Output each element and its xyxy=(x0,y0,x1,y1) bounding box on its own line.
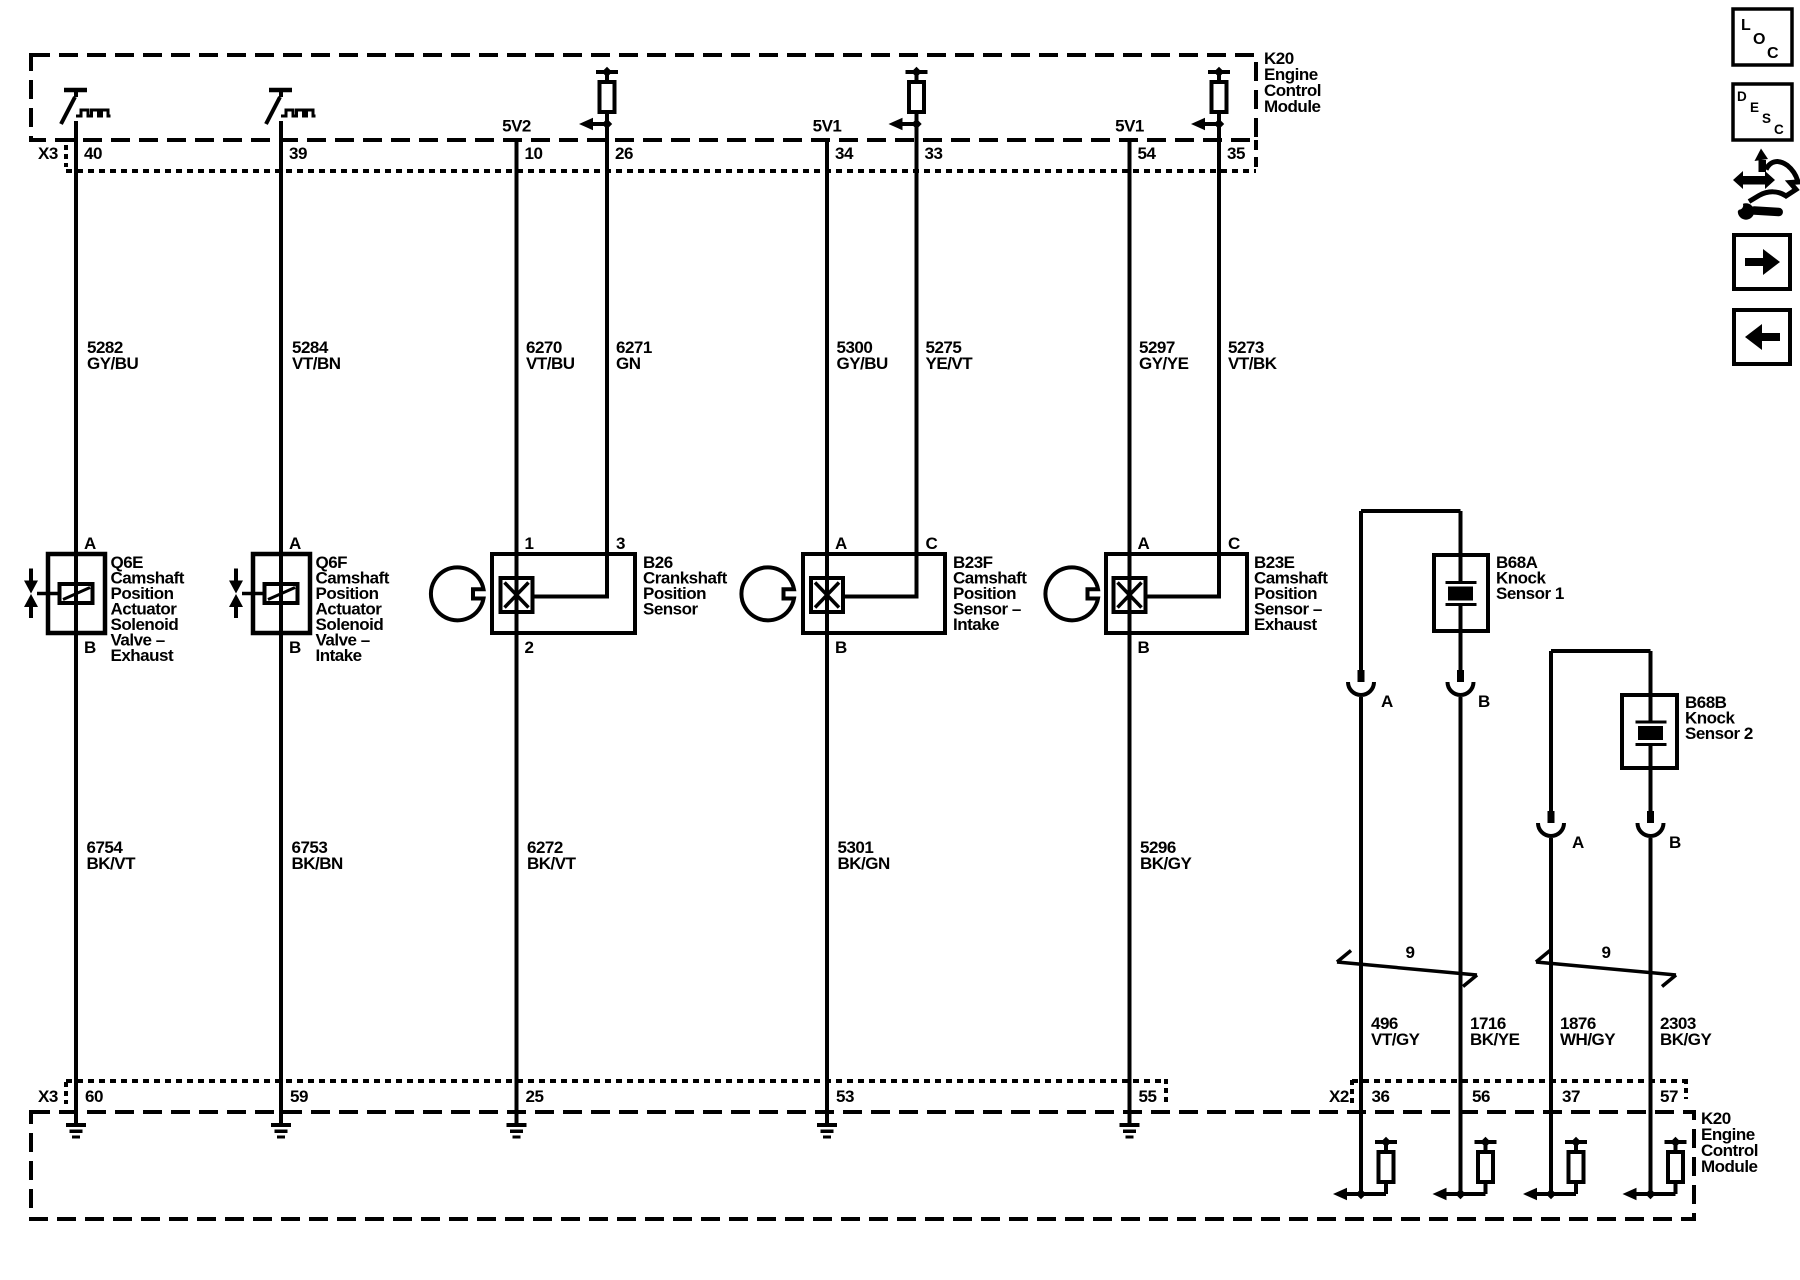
label B23E Camshaft... xyxy=(1254,553,1328,634)
reluctor wheel symbol (B23F) xyxy=(741,567,794,620)
ECM K20 module box (top) xyxy=(31,55,1256,140)
svg-text:33: 33 xyxy=(925,144,943,163)
wire 6754 BK/VT (Q6E B to pin 60) xyxy=(74,554,78,1123)
reluctor wheel symbol (B23E) xyxy=(1045,567,1098,620)
svg-text:X3: X3 xyxy=(38,1087,58,1106)
B68B piezo element xyxy=(1636,651,1667,768)
svg-text:B: B xyxy=(1669,833,1681,852)
svg-text:9: 9 xyxy=(1406,943,1415,962)
twisted pair marker (B68A wires) xyxy=(1337,951,1477,987)
junction dot (pin 57 node) xyxy=(1645,1189,1655,1199)
label wire 6753 BK/BN xyxy=(292,838,344,873)
svg-text:Sensor 1: Sensor 1 xyxy=(1496,584,1564,603)
svg-text:60: 60 xyxy=(85,1087,103,1106)
wire 5296 BK/GY (B23E B to pin 55) xyxy=(1128,554,1132,1123)
junction dot (pin 56 node) xyxy=(1455,1189,1465,1199)
svg-text:GY/BU: GY/BU xyxy=(837,354,889,373)
svg-text:VT/BN: VT/BN xyxy=(292,354,341,373)
svg-text:Module: Module xyxy=(1264,97,1321,116)
label wire 2303 BK/GY xyxy=(1660,1014,1713,1049)
svg-text:BK/YE: BK/YE xyxy=(1470,1030,1520,1049)
svg-text:X3: X3 xyxy=(38,144,58,163)
wire 6272 BK/VT (B26 2 to pin 25) xyxy=(515,554,519,1123)
ground (pin 53) xyxy=(817,1123,837,1139)
inline connector connector B (B68A) xyxy=(1448,670,1474,695)
icon LOC button xyxy=(1733,9,1792,65)
connector X3 strip dotted line (bottom) xyxy=(66,1079,1166,1083)
ground (pin 60) xyxy=(66,1123,86,1139)
svg-text:C: C xyxy=(1228,534,1240,553)
resistor (ECM bias, B23E signal) xyxy=(1208,67,1230,124)
svg-text:GY/BU: GY/BU xyxy=(87,354,139,373)
svg-text:C: C xyxy=(1767,45,1779,62)
icon back arrow button xyxy=(1734,310,1790,364)
wire 5282 GY/BU (pin 40 to Q6E A) xyxy=(74,121,78,554)
label wire 5301 BK/GN xyxy=(838,838,891,873)
svg-text:C: C xyxy=(1774,122,1784,137)
resistor and arrow (ECM input, pin 57) xyxy=(1623,1137,1687,1200)
valve link line (Q6F) xyxy=(242,592,266,596)
svg-text:GN: GN xyxy=(616,354,641,373)
svg-text:Exhaust: Exhaust xyxy=(1254,615,1317,634)
svg-text:5V1: 5V1 xyxy=(1115,117,1144,136)
svg-text:B: B xyxy=(835,638,847,657)
valve link line (Q6E) xyxy=(37,592,61,596)
label Q6E Camshaft... xyxy=(111,553,185,665)
sensor element X symbol (B23F) xyxy=(811,578,843,612)
svg-text:Sensor: Sensor xyxy=(643,600,699,619)
label B68A Knock Sensor 1 xyxy=(1496,553,1564,603)
label B68B Knock Sensor 2 xyxy=(1685,693,1753,743)
wire 1716 BK/YE (connector to pin 56) xyxy=(1459,697,1463,1194)
ground (pin 55) xyxy=(1120,1123,1140,1139)
label wire 5300 GY/BU xyxy=(837,338,889,373)
svg-text:C: C xyxy=(926,534,938,553)
wire 2303 BK/GY (connector to pin 57) xyxy=(1649,838,1653,1194)
arrow to ECM logic (B23F signal) xyxy=(889,118,917,130)
svg-text:10: 10 xyxy=(525,144,543,163)
wire 496 VT/GY (B68A A to connector) xyxy=(1359,511,1363,670)
junction dot (B23F signal node) xyxy=(911,119,921,129)
driver output Q6F (ECM) xyxy=(266,90,316,124)
svg-text:BK/VT: BK/VT xyxy=(527,854,577,873)
sensor B26 box xyxy=(492,554,635,633)
svg-text:E: E xyxy=(1750,100,1759,115)
inline connector connector A (B68A) xyxy=(1348,670,1374,695)
label wire 1876 WH/GY xyxy=(1560,1014,1616,1049)
connector X2 tick xyxy=(1350,1080,1354,1104)
reluctor wheel symbol (B26) xyxy=(431,567,484,620)
svg-text:O: O xyxy=(1753,31,1765,48)
svg-text:S: S xyxy=(1762,111,1771,126)
svg-text:Exhaust: Exhaust xyxy=(111,646,174,665)
label wire 5297 GY/YE xyxy=(1139,338,1189,373)
connector X3 tick (top) xyxy=(64,145,68,167)
label wire 5275 YE/VT xyxy=(926,338,974,373)
svg-text:VT/GY: VT/GY xyxy=(1371,1030,1421,1049)
svg-text:BK/VT: BK/VT xyxy=(87,854,137,873)
solenoid valve Q6E box xyxy=(48,554,105,633)
twisted pair marker (B68B wires) xyxy=(1536,951,1676,987)
icon DESC button xyxy=(1733,84,1792,140)
svg-text:25: 25 xyxy=(526,1087,544,1106)
connector X3 tick (bottom) xyxy=(64,1082,68,1104)
label wire 5273 VT/BK xyxy=(1228,338,1278,373)
svg-text:57: 57 xyxy=(1660,1087,1678,1106)
wire 5301 BK/GN (B23F B to pin 53) xyxy=(825,554,829,1123)
knock sensor B68B box xyxy=(1622,695,1677,768)
junction dot (B23E signal node) xyxy=(1214,119,1224,129)
label B26 Crankshaft... xyxy=(643,553,728,619)
driver output Q6E (ECM) xyxy=(61,90,111,124)
label K20 Engine Control Module (top) xyxy=(1264,49,1321,116)
wire 5297 GY/YE (pin 54 to B23E A) xyxy=(1128,138,1132,554)
resistor and arrow (ECM input, pin 37) xyxy=(1523,1137,1587,1200)
svg-text:B: B xyxy=(1478,692,1490,711)
svg-text:Sensor 2: Sensor 2 xyxy=(1685,724,1753,743)
wire 2303 BK/GY (B68B B to connector) xyxy=(1649,768,1653,811)
label wire 6270 VT/BU xyxy=(526,338,575,373)
junction dot (pin 36 node) xyxy=(1356,1189,1366,1199)
svg-text:BK/BN: BK/BN xyxy=(292,854,344,873)
inline connector connector B (B68B) xyxy=(1638,811,1664,836)
label B23F Camshaft... xyxy=(953,553,1027,634)
wire 5284 VT/BN (pin 39 to Q6F A) xyxy=(279,121,283,554)
wire link B68B terminal A xyxy=(1551,649,1651,653)
icon forward arrow button xyxy=(1734,235,1790,289)
arrow to ECM logic (B26 signal) xyxy=(579,118,607,130)
svg-text:BK/GN: BK/GN xyxy=(838,854,891,873)
svg-text:VT/BU: VT/BU xyxy=(526,354,575,373)
svg-text:40: 40 xyxy=(84,144,102,163)
ground (pin 59) xyxy=(271,1123,291,1139)
resistor and arrow (ECM input, pin 36) xyxy=(1333,1137,1397,1200)
svg-text:X2: X2 xyxy=(1329,1087,1349,1106)
icon diagnostic jump (arrows and wrench) xyxy=(1730,149,1798,220)
svg-text:WH/GY: WH/GY xyxy=(1560,1030,1616,1049)
resistor and arrow (ECM input, pin 56) xyxy=(1433,1137,1497,1200)
junction dot (pin 37 node) xyxy=(1546,1189,1556,1199)
label Q6F Camshaft... xyxy=(316,553,390,665)
solenoid coil symbol (Q6F) xyxy=(265,584,298,603)
connector X2 strip end tick xyxy=(1684,1079,1688,1099)
svg-text:A: A xyxy=(1572,833,1584,852)
sensor element X symbol (B26) xyxy=(501,578,533,612)
svg-text:56: 56 xyxy=(1472,1087,1490,1106)
wire 6753 BK/BN (Q6F B to pin 59) xyxy=(279,554,283,1123)
label wire 5282 GY/BU xyxy=(87,338,139,373)
wire 5273 VT/BK (pin 35 to B23E C) xyxy=(1146,124,1220,597)
valve symbol (Q6E) xyxy=(24,569,38,619)
label wire 496 VT/GY xyxy=(1371,1014,1421,1049)
connector X2 strip dotted line xyxy=(1352,1079,1686,1083)
svg-text:35: 35 xyxy=(1227,144,1245,163)
junction dot (B26 signal node) xyxy=(602,119,612,129)
svg-text:A: A xyxy=(835,534,847,553)
svg-text:37: 37 xyxy=(1562,1087,1580,1106)
label wire 1716 BK/YE xyxy=(1470,1014,1520,1049)
label wire 5284 VT/BN xyxy=(292,338,341,373)
ground (pin 25) xyxy=(507,1123,527,1139)
svg-text:VT/BK: VT/BK xyxy=(1228,354,1278,373)
arrow to ECM logic (B23E signal) xyxy=(1191,118,1219,130)
svg-text:YE/VT: YE/VT xyxy=(926,354,974,373)
svg-text:A: A xyxy=(1381,692,1393,711)
svg-text:Intake: Intake xyxy=(316,646,362,665)
svg-text:53: 53 xyxy=(836,1087,854,1106)
svg-text:9: 9 xyxy=(1602,943,1611,962)
svg-text:55: 55 xyxy=(1139,1087,1157,1106)
wire 1876 WH/GY (B68B A to connector) xyxy=(1549,651,1553,811)
svg-text:26: 26 xyxy=(615,144,633,163)
svg-text:A: A xyxy=(84,534,96,553)
svg-text:5V1: 5V1 xyxy=(813,117,842,136)
solenoid coil symbol (Q6E) xyxy=(60,584,93,603)
label K20 Engine Control Module (bottom) xyxy=(1701,1109,1758,1176)
svg-text:34: 34 xyxy=(835,144,854,163)
label wire 6271 GN xyxy=(616,338,652,373)
svg-text:36: 36 xyxy=(1372,1087,1390,1106)
svg-text:39: 39 xyxy=(289,144,307,163)
sensor element X symbol (B23E) xyxy=(1114,578,1146,612)
wire 1876 WH/GY (connector to pin 37) xyxy=(1549,838,1553,1194)
svg-text:Intake: Intake xyxy=(953,615,999,634)
svg-text:B: B xyxy=(1138,638,1150,657)
wire 5300 GY/BU (pin 34 to B23F A) xyxy=(825,138,829,554)
svg-text:2: 2 xyxy=(525,638,534,657)
resistor (ECM bias, B26 signal) xyxy=(596,67,618,124)
svg-text:59: 59 xyxy=(290,1087,308,1106)
connector X3 strip dotted line (top) xyxy=(66,169,1256,173)
wire 5275 YE/VT (pin 33 to B23F C) xyxy=(843,124,917,597)
label wire 5296 BK/GY xyxy=(1140,838,1193,873)
label wire 6754 BK/VT xyxy=(87,838,137,873)
svg-text:54: 54 xyxy=(1138,144,1157,163)
ECM K20 module box (bottom) xyxy=(31,1112,1694,1219)
solenoid valve Q6F box xyxy=(253,554,310,633)
svg-text:1: 1 xyxy=(525,534,534,553)
svg-text:A: A xyxy=(289,534,301,553)
wire 1716 BK/YE (B68A B to connector) xyxy=(1459,631,1463,670)
resistor (ECM bias, B23F signal) xyxy=(906,67,928,124)
wire link B68A terminal A xyxy=(1361,509,1461,513)
sensor B23F box xyxy=(803,554,945,633)
svg-text:5V2: 5V2 xyxy=(502,117,531,136)
wire 6270 VT/BU (pin 10 to B26 1) xyxy=(515,138,519,554)
sensor B23E box xyxy=(1106,554,1247,633)
svg-text:A: A xyxy=(1138,534,1150,553)
wire 6271 GN (pin 26 to B26 3) xyxy=(533,124,608,597)
inline connector connector A (B68B) xyxy=(1538,811,1564,836)
valve symbol (Q6F) xyxy=(229,569,243,619)
svg-text:Module: Module xyxy=(1701,1157,1758,1176)
knock sensor B68A box xyxy=(1434,555,1488,631)
svg-text:D: D xyxy=(1737,89,1747,104)
ECM box right edge extension to connector strip xyxy=(1254,140,1258,173)
connector X3 strip end tick (bottom) xyxy=(1164,1079,1168,1103)
svg-text:B: B xyxy=(289,638,301,657)
svg-text:L: L xyxy=(1741,17,1751,34)
svg-text:B: B xyxy=(84,638,96,657)
wire 496 VT/GY (connector to pin 36) xyxy=(1359,697,1363,1194)
svg-text:GY/YE: GY/YE xyxy=(1139,354,1189,373)
svg-text:BK/GY: BK/GY xyxy=(1660,1030,1713,1049)
label wire 6272 BK/VT xyxy=(527,838,577,873)
B68A piezo element xyxy=(1446,511,1477,631)
svg-text:3: 3 xyxy=(616,534,625,553)
svg-text:BK/GY: BK/GY xyxy=(1140,854,1193,873)
